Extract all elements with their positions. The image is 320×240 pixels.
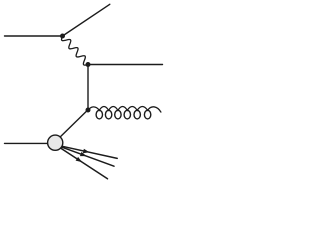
arrowhead remnant 2 (80, 152, 87, 156)
wire outgoing lepton (63, 4, 110, 36)
wire incoming proton (5, 142, 48, 144)
gluon loop 5 (134, 110, 140, 119)
vertex V2 (86, 62, 91, 67)
arrowhead remnant 3 (76, 157, 82, 162)
wire incoming lepton (5, 35, 63, 37)
wire quark from blob (56, 110, 89, 142)
gluon loop 4 (124, 110, 130, 119)
gluon arches (88, 107, 161, 113)
wire remnant 1 (56, 145, 118, 159)
wire remnant 2 (56, 145, 115, 166)
gluon loop 6 (144, 110, 150, 119)
gluon loop 3 (115, 110, 121, 119)
photon propagator (62, 36, 88, 65)
vertex V3 (86, 108, 91, 113)
proton blob (48, 135, 63, 150)
gluon loop 2 (105, 110, 111, 119)
vertex V1 (60, 34, 65, 39)
wire quark propagator (vertical) (87, 65, 89, 111)
wire outgoing quark (horizontal) (88, 64, 163, 66)
gluon loop 1 (96, 110, 102, 119)
wire remnant 3 (56, 145, 108, 179)
arrowhead remnant 1 (83, 149, 90, 153)
